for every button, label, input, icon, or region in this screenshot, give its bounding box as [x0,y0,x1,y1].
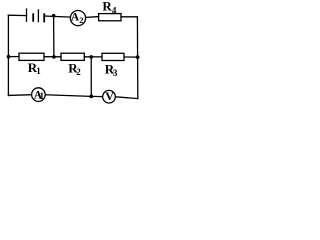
svg-text:V: V [105,89,114,103]
svg-text:R: R [102,0,112,13]
svg-text:3: 3 [113,68,118,78]
svg-text:1: 1 [40,91,45,101]
svg-text:4: 4 [112,5,117,15]
svg-text:2: 2 [76,67,81,77]
svg-text:2: 2 [79,15,83,25]
svg-text:1: 1 [36,66,41,76]
